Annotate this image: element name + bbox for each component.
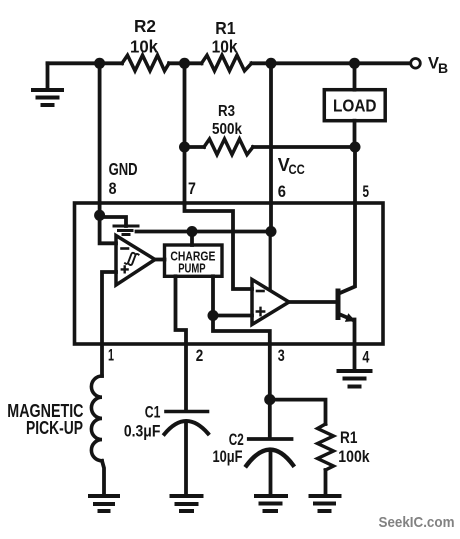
- wire coil to ground: [102, 461, 104, 494]
- svg-text:6: 6: [278, 182, 286, 201]
- wire charge pump top riser: [190, 232, 194, 246]
- wire load bottom: [353, 121, 357, 147]
- resistor R2: [122, 55, 169, 71]
- op-amp U1B plus sign: [257, 308, 264, 315]
- wire vcc to comparator top: [269, 232, 272, 291]
- svg-text:1: 1: [108, 345, 114, 364]
- wire pin7 internal jog: [185, 203, 253, 289]
- wire to mini ground: [100, 217, 126, 226]
- op-amp U1A minus sign: [122, 247, 129, 250]
- svg-text:7: 7: [188, 179, 196, 198]
- wire comparator plus input: [213, 314, 252, 318]
- node load bottom: [350, 142, 361, 153]
- transistor Q1 collector: [340, 147, 355, 293]
- svg-text:GND: GND: [109, 159, 138, 179]
- capacitor C2 curved plate: [247, 450, 294, 466]
- node pin8 internal: [94, 210, 105, 221]
- wire schmitt output: [155, 258, 165, 262]
- svg-text:R2: R2: [134, 16, 156, 36]
- capacitor C2 top plate: [249, 437, 292, 441]
- wire C1 to ground: [184, 424, 188, 494]
- op-amp U1A hysteresis stroke 2: [129, 254, 139, 265]
- op-amp U1A plus sign: [122, 267, 128, 273]
- svg-text:R3: R3: [218, 103, 235, 120]
- op-amp U1A hysteresis stroke 1: [125, 253, 135, 264]
- ground G3 C1: [172, 496, 202, 511]
- wire schmitt plus input / pin1: [102, 272, 116, 376]
- svg-text:C2: C2: [229, 431, 244, 449]
- svg-text:B: B: [438, 60, 448, 76]
- wire charge pump right riser: [213, 276, 270, 399]
- node B pin7 rail: [179, 58, 190, 69]
- wire schmitt minus input: [100, 215, 116, 243]
- node D load rail: [349, 58, 360, 69]
- load box: [324, 90, 385, 121]
- op-amp U1B comparator: [252, 280, 289, 325]
- svg-text:SeekIC.com: SeekIC.com: [379, 514, 455, 531]
- svg-text:0.3μF: 0.3μF: [124, 423, 160, 441]
- svg-text:2: 2: [196, 346, 204, 365]
- node comparator plus tap: [208, 310, 219, 321]
- op-amp U1A schmitt: [116, 236, 155, 286]
- node C pin6 rail: [266, 58, 277, 69]
- wire pin3 node to C2: [268, 400, 272, 438]
- wire pin8 vertical: [98, 63, 102, 215]
- wire pin6 vertical: [269, 63, 273, 231]
- wire R3 row: [185, 145, 356, 149]
- svg-text:5: 5: [363, 182, 370, 201]
- wire load top: [353, 63, 357, 89]
- transistor Q1 emitter arrow: [345, 313, 356, 322]
- ground G4 C2: [256, 496, 286, 511]
- node vcc pin6: [266, 226, 277, 237]
- wire R1 to ground: [324, 470, 328, 494]
- capacitor C1 curved plate: [165, 421, 209, 434]
- ground G2 coil: [90, 496, 118, 511]
- op-amp U1B minus sign: [257, 290, 264, 293]
- wire top rail VB: [48, 61, 411, 65]
- svg-text:LOAD: LOAD: [333, 95, 377, 115]
- svg-text:PUMP: PUMP: [178, 260, 206, 275]
- ground G5 pin4: [339, 371, 371, 387]
- node charge pump top: [187, 226, 198, 237]
- svg-text:C1: C1: [145, 403, 161, 421]
- ground G6 R1: [311, 496, 340, 511]
- wire charge pump left riser pin2: [176, 276, 187, 410]
- transistor Q1 emitter: [340, 315, 353, 321]
- ground mini schmitt: [114, 226, 138, 235]
- resistor R3: [204, 139, 253, 155]
- IC box U1: [75, 203, 384, 344]
- svg-text:PICK-UP: PICK-UP: [26, 418, 83, 438]
- svg-text:4: 4: [362, 348, 369, 367]
- capacitor C1 top plate: [166, 410, 208, 414]
- charge pump box: [165, 245, 223, 276]
- svg-text:8: 8: [109, 179, 117, 198]
- node A pin8 rail: [94, 58, 105, 69]
- svg-text:10μF: 10μF: [213, 448, 243, 466]
- resistor R1 bottom 100k: [318, 424, 334, 470]
- node R3 left: [179, 142, 190, 153]
- svg-text:R1: R1: [215, 18, 236, 38]
- svg-text:10k: 10k: [130, 36, 158, 56]
- svg-text:3: 3: [278, 346, 285, 365]
- transistor Q1 base bar: [336, 291, 341, 318]
- node pin3 bottom: [264, 394, 275, 405]
- wire C2 to ground: [269, 452, 273, 494]
- wire pin4 emitter down: [353, 320, 357, 371]
- wire pin7 vertical: [183, 63, 187, 204]
- terminal VB: [411, 59, 421, 69]
- svg-text:100k: 100k: [338, 448, 370, 466]
- ground G1 top-left: [33, 63, 62, 105]
- wire comparator output: [289, 300, 336, 304]
- resistor R1 top: [202, 55, 252, 71]
- svg-text:CC: CC: [289, 161, 305, 177]
- wire internal vcc: [137, 230, 272, 234]
- inductor L1 magnetic pickup: [91, 376, 102, 461]
- svg-text:500k: 500k: [212, 121, 242, 138]
- svg-text:R1: R1: [340, 429, 357, 447]
- wire node to R1 bottom: [270, 400, 326, 424]
- svg-text:10k: 10k: [212, 36, 238, 56]
